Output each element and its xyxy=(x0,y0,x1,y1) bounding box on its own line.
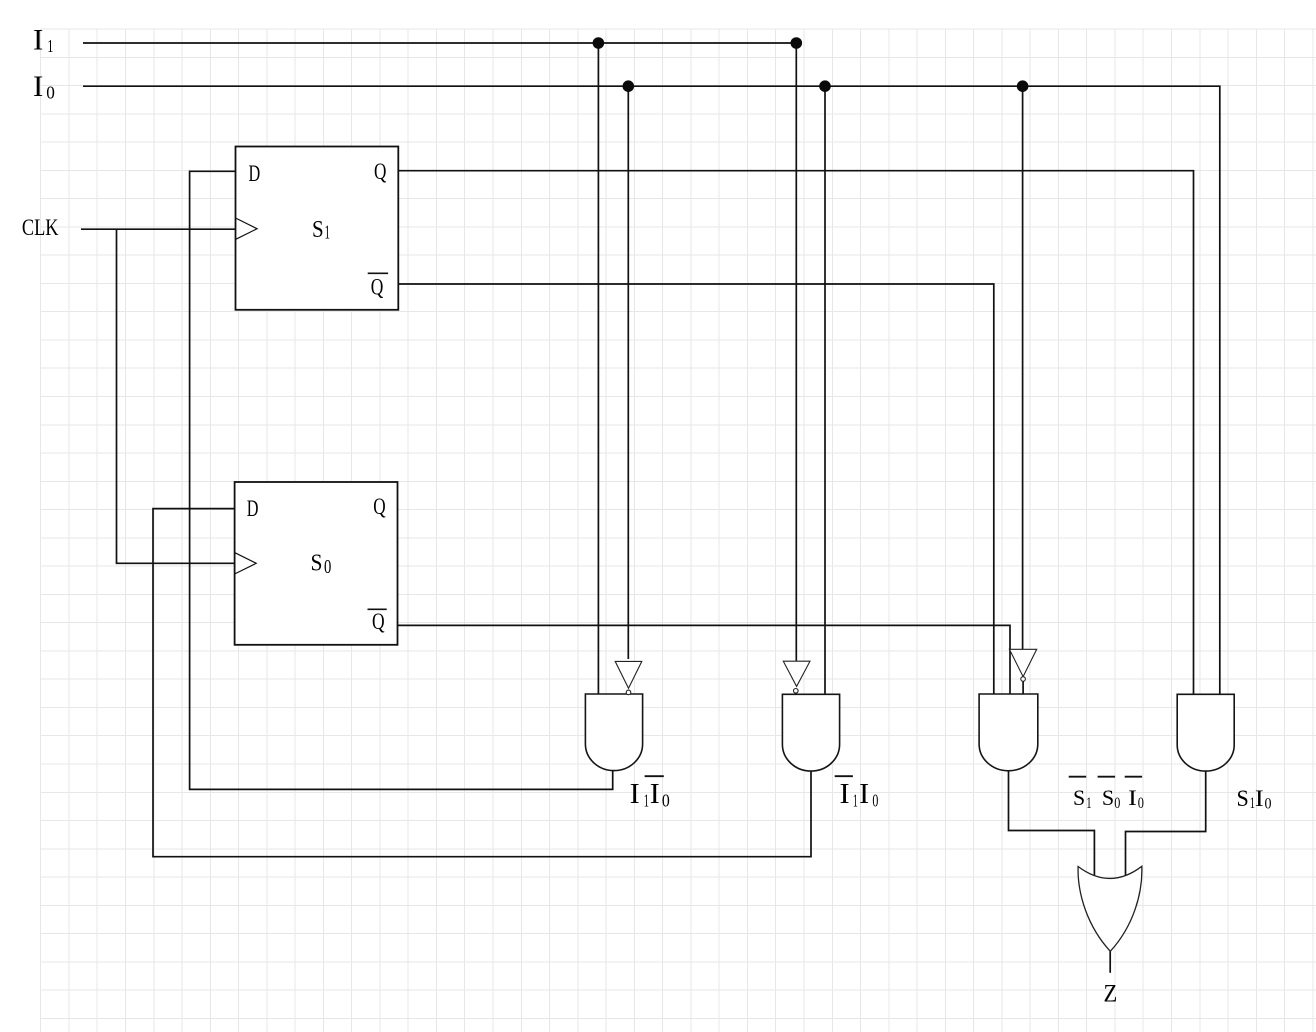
svg-text:1: 1 xyxy=(325,222,331,244)
svg-text:1: 1 xyxy=(1086,795,1091,812)
wire I0 tap to inverter N1 xyxy=(627,86,629,659)
svg-text:1: 1 xyxy=(47,36,53,56)
svg-text:CLK: CLK xyxy=(22,215,59,241)
flip-flop S1 clock triangle xyxy=(236,218,258,239)
svg-text:0: 0 xyxy=(1138,795,1144,812)
svg-text:S: S xyxy=(1237,786,1249,811)
svg-text:0: 0 xyxy=(1114,795,1120,812)
node dot I0-C xyxy=(1017,80,1029,92)
svg-text:S: S xyxy=(1102,785,1114,810)
svg-text:Q: Q xyxy=(374,159,386,185)
wire I0 tap to inverter N3 xyxy=(1022,86,1024,649)
wire U4 output to OR gate right input xyxy=(1126,771,1206,876)
svg-text:I: I xyxy=(630,778,640,810)
svg-text:S: S xyxy=(311,550,323,577)
or-gate Z xyxy=(1078,866,1142,951)
wire I1 tap to AND U1 left input xyxy=(597,43,599,694)
wire S1 Q to AND U4 left input xyxy=(398,171,1193,694)
wire inverter N3 to U3 input xyxy=(1022,681,1024,694)
node dot I0-A xyxy=(623,80,635,92)
wire CLK input xyxy=(81,228,236,230)
inverter N2 bubble xyxy=(794,689,799,694)
inverter N2 triangle xyxy=(783,661,810,686)
svg-text:1: 1 xyxy=(644,790,649,810)
svg-text:I: I xyxy=(650,778,660,810)
svg-text:0: 0 xyxy=(324,556,331,578)
svg-text:Q: Q xyxy=(372,609,385,635)
inverter N3 triangle xyxy=(1009,649,1036,676)
wire I1 input line xyxy=(83,42,796,44)
svg-text:Q: Q xyxy=(373,494,385,520)
wire CLK branch to S0 clock xyxy=(117,229,235,563)
inverter N3 bubble xyxy=(1021,677,1026,682)
node dot I1-A xyxy=(593,37,605,49)
wire U2 output feedback to S0 D xyxy=(153,509,811,857)
svg-text:0: 0 xyxy=(872,790,878,810)
wire U1 output feedback to S1 D xyxy=(190,171,613,789)
flip-flop S1 box xyxy=(236,147,399,310)
svg-text:I: I xyxy=(33,23,43,56)
node dot I0-B xyxy=(819,80,831,92)
node dot I1-B xyxy=(791,37,803,49)
wire S0 Qbar to AND U3 input xyxy=(398,625,1011,694)
wire S1 Qbar to AND U3 input xyxy=(398,284,994,694)
wire I0 input line, runs right then down to U4 xyxy=(83,86,1220,694)
inverter N1 bubble xyxy=(626,690,631,695)
svg-text:S: S xyxy=(312,216,324,243)
and-gate U2 xyxy=(782,694,839,771)
svg-text:D: D xyxy=(249,161,261,187)
wire Z output xyxy=(1109,951,1111,973)
flip-flop S0 box xyxy=(235,482,398,645)
and-gate U3 xyxy=(979,694,1038,771)
svg-text:0: 0 xyxy=(1265,796,1272,813)
svg-text:Q: Q xyxy=(371,275,384,301)
svg-text:0: 0 xyxy=(662,790,670,810)
svg-text:0: 0 xyxy=(46,83,55,103)
svg-text:S: S xyxy=(1073,785,1085,810)
svg-text:1: 1 xyxy=(853,790,858,810)
wire I0 tap to AND U2 right input xyxy=(824,86,826,694)
svg-text:Z: Z xyxy=(1104,979,1118,1007)
svg-text:I: I xyxy=(1128,785,1137,810)
svg-text:I: I xyxy=(1255,786,1264,811)
svg-text:I: I xyxy=(840,778,850,810)
and-gate U4 xyxy=(1177,694,1234,771)
svg-text:I: I xyxy=(33,70,43,103)
wire U3 output to OR gate left input xyxy=(1009,771,1095,876)
svg-text:I: I xyxy=(859,778,869,810)
wire I1 tap to inverter N2 xyxy=(795,43,797,661)
flip-flop S0 clock triangle xyxy=(235,553,257,574)
svg-text:D: D xyxy=(247,496,259,522)
and-gate U1 xyxy=(585,694,642,771)
inverter N1 triangle xyxy=(615,661,642,688)
